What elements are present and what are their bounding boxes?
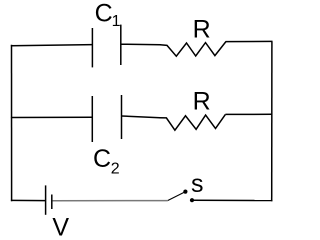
wire left vertical bbox=[11, 45, 13, 202]
wire right vertical bbox=[271, 41, 273, 201]
label C1 bbox=[95, 0, 121, 30]
wire C1 to R1 bbox=[121, 43, 161, 46]
switch s bbox=[168, 190, 194, 203]
wire C2 to R2 bbox=[122, 116, 161, 118]
resistor R2 bbox=[159, 114, 225, 130]
label C2 bbox=[93, 145, 120, 178]
wire R2 to right vertical bbox=[225, 113, 272, 115]
svg-text:R: R bbox=[193, 87, 211, 115]
svg-text:1: 1 bbox=[112, 13, 121, 30]
svg-text:V: V bbox=[52, 214, 69, 239]
wire gray battery to switch bbox=[53, 200, 168, 202]
svg-text:C: C bbox=[93, 145, 111, 173]
capacitor C2 bbox=[92, 95, 121, 142]
wire top-left horizontal bbox=[11, 45, 93, 46]
svg-text:C: C bbox=[95, 0, 113, 27]
wire switch to bottom-right bbox=[194, 199, 273, 201]
resistor R1 bbox=[160, 42, 226, 57]
wire middle-left bbox=[11, 116, 92, 118]
battery V bbox=[46, 185, 52, 214]
wire R1 to top-right corner bbox=[226, 40, 273, 42]
wire bottom-left bbox=[11, 199, 46, 201]
capacitor C1 bbox=[92, 25, 120, 68]
svg-text:R: R bbox=[193, 15, 211, 43]
svg-text:2: 2 bbox=[111, 161, 120, 178]
svg-text:s: s bbox=[191, 170, 204, 198]
